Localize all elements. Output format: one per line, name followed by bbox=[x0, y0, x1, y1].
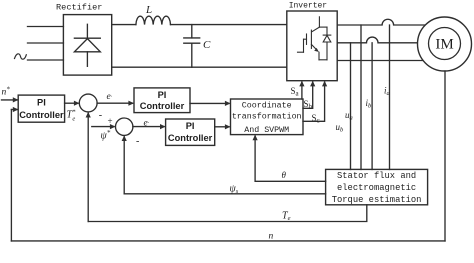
svg-text:electromagnetic: electromagnetic bbox=[337, 183, 416, 193]
svg-text:Sb: Sb bbox=[304, 99, 313, 111]
svg-text:Stator flux and: Stator flux and bbox=[337, 171, 416, 181]
svg-text:ib: ib bbox=[366, 98, 373, 110]
op-amp U1 PI controller speed bbox=[18, 95, 64, 122]
capacitor C bbox=[184, 25, 200, 68]
wire DC+ rail rectifier to inductor bbox=[112, 24, 136, 26]
transistor Q1 IGBT inside inverter bbox=[298, 17, 328, 60]
wire PI3 output to coordinate block bbox=[215, 126, 229, 128]
svg-text:And SVPWM: And SVPWM bbox=[244, 125, 289, 135]
svg-text:transformation: transformation bbox=[232, 111, 302, 121]
wire sum2 output to PI3 bbox=[133, 126, 164, 128]
node sum junction 2 bbox=[116, 118, 133, 135]
wire DC+ rail inductor to inverter bbox=[171, 24, 287, 26]
svg-text:Controller: Controller bbox=[19, 110, 64, 120]
wire n feedback bottom bbox=[11, 240, 445, 242]
wire torque feedback up into sum1 bbox=[87, 113, 89, 221]
svg-text:PI: PI bbox=[37, 98, 46, 108]
svg-text:PI: PI bbox=[186, 121, 195, 131]
wire torque feedback from estimator bbox=[88, 205, 367, 222]
op-amp U2 PI controller torque bbox=[134, 88, 190, 113]
wire Sb gate signal bbox=[303, 82, 313, 108]
motor IM bbox=[418, 17, 472, 71]
svg-text:Rectifier: Rectifier bbox=[56, 3, 102, 13]
svg-text:θ: θ bbox=[282, 170, 287, 180]
svg-text:n: n bbox=[269, 232, 274, 242]
wire psi feedback bbox=[124, 193, 325, 195]
svg-text:e.: e. bbox=[107, 92, 113, 102]
wire Sa gate signal bbox=[301, 82, 303, 99]
svg-text:Inverter: Inverter bbox=[289, 2, 328, 11]
svg-text:Torque estimation: Torque estimation bbox=[332, 195, 422, 205]
svg-text:Sa: Sa bbox=[291, 86, 300, 98]
stator flux estimator block bbox=[326, 169, 428, 204]
wire psi* input to sum2 bbox=[92, 126, 114, 128]
wire ua tap bbox=[360, 25, 362, 169]
svg-text:Te: Te bbox=[282, 211, 291, 223]
diode D1 inside rectifier bbox=[74, 24, 100, 66]
diode D2 antiparallel inside inverter bbox=[323, 27, 331, 60]
svg-text:Coordinate: Coordinate bbox=[242, 100, 292, 110]
node sum junction 1 bbox=[79, 94, 97, 112]
wire flux feedback up into sum2 bbox=[123, 137, 125, 194]
svg-text:ψ*: ψ* bbox=[101, 129, 111, 142]
wire n feedback into PI controller bbox=[11, 109, 17, 111]
wire sum1 output to PI2 bbox=[97, 102, 133, 104]
svg-text:PI: PI bbox=[158, 90, 167, 100]
op-amp U3 PI controller flux bbox=[166, 119, 215, 145]
wire inverter phase A to motor bbox=[338, 19, 433, 25]
svg-text:Controller: Controller bbox=[140, 101, 185, 111]
wire AC input phase 2 bbox=[28, 42, 64, 44]
inverter block bbox=[287, 11, 337, 81]
wire n* input bbox=[2, 99, 18, 101]
wire ia tap bbox=[389, 25, 391, 169]
wire inverter phase B to motor bbox=[338, 37, 431, 43]
svg-text:ua: ua bbox=[345, 110, 353, 122]
rectifier block bbox=[63, 15, 111, 76]
AC source symbol ~ bbox=[15, 54, 27, 59]
wire inverter phase C to motor bbox=[338, 60, 433, 62]
svg-text:T*e: T*e bbox=[67, 109, 77, 123]
wire n feedback up to PI controller bbox=[10, 110, 12, 241]
svg-text:L: L bbox=[145, 4, 152, 16]
svg-text:C: C bbox=[203, 39, 211, 51]
svg-text:Sc: Sc bbox=[312, 113, 320, 125]
wire AC input phase 1 bbox=[28, 26, 64, 28]
wire ib tap bbox=[371, 43, 373, 170]
wire PI2 output to coordinate block bbox=[190, 102, 229, 104]
wire motor speed sensor down bbox=[444, 71, 446, 241]
inductor L bbox=[136, 16, 171, 24]
wire PI1 output to sum1 bbox=[65, 102, 78, 104]
svg-text:n*: n* bbox=[2, 86, 11, 98]
svg-text:ub: ub bbox=[336, 122, 345, 134]
wire theta to coordinate block bbox=[255, 136, 326, 181]
wire AC input phase 3 bbox=[28, 59, 64, 61]
svg-text:ψs: ψs bbox=[230, 184, 239, 196]
wire DC- rail rectifier to inverter bbox=[112, 66, 287, 68]
svg-text:-: - bbox=[99, 110, 102, 121]
svg-text:-: - bbox=[136, 136, 139, 147]
svg-text:IM: IM bbox=[435, 37, 453, 53]
coordinate transformation block bbox=[231, 99, 304, 135]
svg-text:Controller: Controller bbox=[168, 133, 213, 143]
wire ub tap bbox=[350, 43, 352, 170]
wire Sc gate signal bbox=[303, 82, 325, 121]
